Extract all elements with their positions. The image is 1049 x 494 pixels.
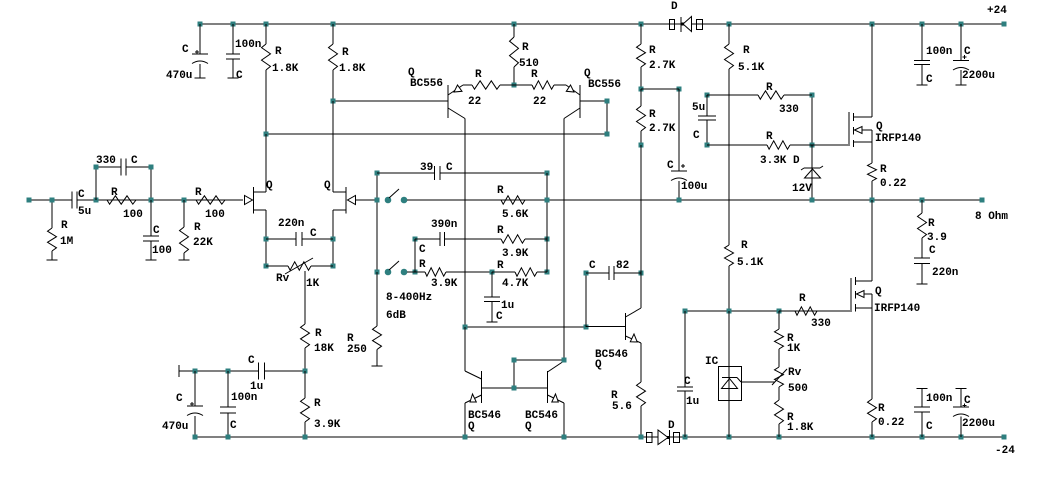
- node bottom rail junctions (685,437): [683, 435, 688, 440]
- capacitor C 5u (bias): [692, 95, 716, 145]
- potentiometer Rv 500: [772, 367, 808, 395]
- node 2.7k mid (641,89): [639, 87, 644, 92]
- svg-text:R: R: [878, 403, 885, 415]
- svg-text:R: R: [497, 260, 504, 272]
- terminal input rail stub: [178, 365, 180, 377]
- svg-text:22K: 22K: [193, 237, 213, 249]
- wire mirror bases: [482, 360, 565, 388]
- node 330 row (812,95): [810, 93, 815, 98]
- svg-text:R: R: [475, 69, 482, 81]
- svg-text:3.3K: 3.3K: [760, 155, 787, 167]
- resistor R 5.6: [611, 343, 646, 437]
- capacitor C 82: [586, 260, 641, 280]
- svg-text:0.22: 0.22: [880, 178, 906, 190]
- capacitor C 220n (zobel): [914, 245, 958, 284]
- svg-text:5u: 5u: [78, 206, 91, 218]
- svg-text:5.6: 5.6: [612, 401, 632, 413]
- node R1M top (52,200): [50, 198, 55, 203]
- node output line junctions (812,200): [810, 198, 815, 203]
- svg-text:C: C: [693, 130, 700, 142]
- resistor R 330 (upper): [707, 82, 812, 116]
- wire BC556-right base run: [266, 101, 607, 134]
- transistor Q IRFP140 (lower): [851, 200, 920, 399]
- svg-text:Rv: Rv: [276, 273, 290, 285]
- node 390n row (415,272): [413, 270, 418, 275]
- diode D (bottom rail, cathode right): [647, 420, 680, 445]
- resistor R 250: [347, 272, 383, 366]
- svg-text:R: R: [649, 109, 656, 121]
- svg-text:1K: 1K: [306, 278, 320, 290]
- node driver base line (586,327): [584, 325, 589, 330]
- resistor R 510: [510, 24, 539, 85]
- node input bypass corners (151,167): [149, 165, 154, 170]
- svg-text:22: 22: [468, 96, 481, 108]
- node fb right column (547,173): [545, 171, 550, 176]
- svg-text:C: C: [236, 70, 243, 82]
- svg-text:R: R: [342, 47, 349, 59]
- node bottom rail junctions (729,437): [727, 435, 732, 440]
- switch S1 (fb): [385, 189, 408, 203]
- svg-text:R: R: [928, 218, 935, 230]
- svg-text:C: C: [248, 355, 255, 367]
- transistor Q BC546 (mirror left): [465, 371, 501, 437]
- svg-text:3.9K: 3.9K: [431, 278, 458, 290]
- svg-text:1u: 1u: [686, 396, 699, 408]
- svg-text:-24: -24: [995, 445, 1015, 457]
- node base-net junctions (607,101): [605, 99, 610, 104]
- svg-text:100: 100: [152, 245, 172, 257]
- node fb right column (547,272): [545, 270, 550, 275]
- wire BC556-right collector drop: [563, 119, 565, 361]
- node top rail junctions (922,24): [920, 22, 925, 27]
- resistor R 3.9K (fb mid): [497, 225, 547, 260]
- svg-text:1.8K: 1.8K: [339, 63, 366, 75]
- svg-text:C: C: [131, 155, 138, 167]
- svg-text:Q: Q: [875, 286, 882, 298]
- svg-text:100n: 100n: [235, 39, 261, 51]
- svg-text:R: R: [649, 45, 656, 57]
- wire driver base line: [465, 326, 586, 328]
- svg-text:1u: 1u: [501, 300, 514, 312]
- svg-text:R: R: [522, 42, 529, 54]
- node top rail junctions (233,24): [231, 22, 236, 27]
- svg-text:470u: 470u: [162, 421, 188, 433]
- resistor R 2.7K (upper): [637, 24, 676, 89]
- capacitor C 5u (input): [72, 189, 91, 218]
- capacitor C 390n: [415, 219, 501, 272]
- svg-text:470u: 470u: [166, 70, 192, 82]
- capacitor C 39 (fb): [377, 162, 547, 180]
- capacitor C 220n (source bridge): [266, 218, 333, 246]
- capacitor C 100u: [667, 89, 707, 200]
- node output line junctions (982,200): [980, 198, 985, 203]
- svg-text:1K: 1K: [787, 343, 801, 355]
- svg-text:R: R: [880, 164, 887, 176]
- node top rail junctions (200,24): [198, 22, 203, 27]
- svg-text:R: R: [766, 131, 773, 143]
- svg-text:D: D: [793, 155, 800, 167]
- node pot row (333,266): [331, 264, 336, 269]
- node lower gate line (729,311): [727, 309, 732, 314]
- svg-text:5u: 5u: [692, 102, 705, 114]
- svg-text:100n: 100n: [231, 392, 257, 404]
- label -24: [995, 445, 1015, 457]
- svg-text:330: 330: [811, 318, 831, 330]
- resistor R 4.7K (fb): [492, 260, 547, 290]
- svg-text:R: R: [766, 82, 773, 94]
- resistor R 5.1K (upper): [725, 24, 765, 245]
- node base-net junctions (607,134): [605, 132, 610, 137]
- node bottom-left row (195,371): [193, 369, 198, 374]
- node top rail junctions (514,24): [512, 22, 517, 27]
- resistor R 5.1K (lower): [725, 69, 764, 311]
- node mirror bases (564,360): [562, 358, 567, 363]
- node bottom rail junctions (195,437): [193, 435, 198, 440]
- svg-text:5.1K: 5.1K: [738, 62, 765, 74]
- svg-text:220n: 220n: [278, 218, 304, 230]
- node fb left column (377,200): [375, 198, 380, 203]
- capacitor C 2200u (+24 decoupling): [953, 24, 995, 85]
- transistor Q jfet (right): [324, 101, 377, 266]
- svg-text:22: 22: [533, 96, 546, 108]
- label 8 Ohm: [975, 211, 1008, 223]
- resistor R 2.7K (lower): [637, 89, 676, 145]
- svg-text:Q: Q: [468, 421, 475, 433]
- node output line junctions (922,200): [920, 198, 925, 203]
- capacitor C 1u (bottom-left bridge): [248, 355, 265, 393]
- svg-text:C: C: [230, 420, 237, 432]
- potentiometer Rv 1K: [266, 258, 333, 324]
- svg-text:Q: Q: [595, 359, 602, 371]
- diode D (top rail, cathode left): [670, 1, 703, 32]
- svg-text:C: C: [667, 160, 674, 172]
- node output line junctions (872,200): [870, 198, 875, 203]
- wire 330 row riser: [811, 95, 813, 145]
- resistor R 22 (left): [463, 69, 514, 108]
- resistor R 18K: [301, 324, 335, 371]
- svg-text:1M: 1M: [60, 236, 74, 248]
- node fb left column (377,272): [375, 270, 380, 275]
- svg-text:330: 330: [96, 155, 116, 167]
- node bottom-left row (228,371): [226, 369, 231, 374]
- svg-text:Q: Q: [876, 121, 883, 133]
- node emitter row (514,85): [512, 83, 517, 88]
- capacitor C 470u (bottom-left): [162, 371, 203, 437]
- svg-text:C: C: [926, 74, 933, 86]
- wire gate upper: [812, 144, 848, 146]
- resistor R 1.8K (bias): [775, 387, 814, 437]
- svg-text:C: C: [684, 376, 691, 388]
- svg-text:R: R: [315, 328, 322, 340]
- resistor R 100 (series 1): [107, 187, 143, 221]
- svg-text:18K: 18K: [314, 343, 334, 355]
- resistor R 1K (bias): [775, 311, 801, 367]
- wire fb left column: [376, 173, 378, 326]
- svg-text:IRFP140: IRFP140: [874, 303, 920, 315]
- node top rail junctions (872,24): [870, 22, 875, 27]
- wire mirror riser: [464, 327, 466, 371]
- svg-text:R: R: [194, 222, 201, 234]
- node 220n bridge (266,239): [264, 237, 269, 242]
- svg-text:390n: 390n: [431, 219, 457, 231]
- node mirror bases (514,360): [512, 358, 517, 363]
- node 82pF row (641,273): [639, 271, 644, 276]
- svg-text:2200u: 2200u: [962, 418, 995, 430]
- svg-text:IRFP140: IRFP140: [875, 133, 921, 145]
- node bottom rail junctions (779,437): [777, 435, 782, 440]
- wire 2.7k mid to 100u: [641, 88, 679, 90]
- node output line junctions (547,200): [545, 198, 550, 203]
- svg-text:C: C: [310, 228, 317, 240]
- resistor R 5.6K (fb): [407, 185, 547, 221]
- svg-text:12V: 12V: [792, 183, 812, 195]
- resistor R 1.8K (left): [262, 24, 299, 134]
- node bottom rail junctions (961,437): [959, 435, 964, 440]
- svg-text:1.8K: 1.8K: [272, 63, 299, 75]
- svg-text:2.7K: 2.7K: [649, 60, 676, 72]
- node bottom rail junctions (1004,437): [1002, 435, 1007, 440]
- svg-text:C: C: [929, 245, 936, 257]
- resistor R 22 (right): [514, 69, 566, 108]
- node input bypass corners (96,167): [94, 165, 99, 170]
- svg-text:5.1K: 5.1K: [737, 257, 764, 269]
- node pot row (266,266): [264, 264, 269, 269]
- svg-text:2200u: 2200u: [962, 70, 995, 82]
- transistor Q BC556 (right PNP): [564, 68, 621, 119]
- svg-text:R: R: [275, 46, 282, 58]
- svg-text:C: C: [182, 44, 189, 56]
- svg-text:Rv: Rv: [788, 367, 802, 379]
- node 2.7k mid (679,89): [677, 87, 682, 92]
- svg-text:500: 500: [788, 383, 808, 395]
- capacitor C 100n (bottom-left): [220, 371, 257, 437]
- wire input line: [29, 199, 243, 201]
- capacitor C 100n top-left: [226, 24, 261, 82]
- svg-text:Q: Q: [525, 421, 532, 433]
- capacitor C 1u (gate low): [677, 311, 699, 437]
- wire fb right column: [546, 173, 548, 272]
- svg-text:R: R: [531, 69, 538, 81]
- svg-text:6dB: 6dB: [386, 310, 406, 322]
- wire lower gate line: [685, 310, 850, 312]
- node after R100 (151,200): [149, 198, 154, 203]
- capacitor C 100: [143, 200, 172, 260]
- resistor R 3.3K: [707, 131, 812, 167]
- svg-text:C: C: [153, 225, 160, 237]
- svg-text:100: 100: [123, 209, 143, 221]
- resistor R 22K: [179, 200, 214, 260]
- node fb right column (547,239): [545, 237, 550, 242]
- svg-text:8-400Hz: 8-400Hz: [386, 292, 432, 304]
- capacitor C 100n (+24 decoupling): [914, 24, 952, 86]
- svg-text:R: R: [799, 293, 806, 305]
- node 1u fb cap top (492,272): [490, 270, 495, 275]
- wire IC ref to pot wiper: [741, 381, 775, 383]
- svg-text:5.6K: 5.6K: [502, 209, 529, 221]
- node input terminal (29,200): [27, 198, 32, 203]
- svg-text:R: R: [497, 185, 504, 197]
- node top rail junctions (333,24): [331, 22, 336, 27]
- svg-text:100: 100: [205, 209, 225, 221]
- transistor Q BC546 (mirror right): [525, 361, 564, 437]
- node 3.3k row (641,145): [639, 143, 644, 148]
- svg-text:R: R: [61, 220, 68, 232]
- svg-text:82: 82: [616, 260, 629, 272]
- node input RC (96,200): [94, 198, 99, 203]
- capacitor C 470u top-left: [166, 24, 208, 82]
- IC shunt regulator: [705, 311, 742, 437]
- svg-text:39: 39: [420, 162, 433, 174]
- node bottom rail junctions (228,437): [226, 435, 231, 440]
- capacitor C 330 (input bypass): [96, 155, 151, 200]
- node bottom rail junctions (872,437): [870, 435, 875, 440]
- svg-text:3.9K: 3.9K: [314, 419, 341, 431]
- node 220n bridge (333,239): [331, 237, 336, 242]
- node bottom-left row (305,371): [303, 369, 308, 374]
- node lower gate line (685,311): [683, 309, 688, 314]
- diode D 12V zener: [792, 145, 823, 200]
- node output line junctions (679,200): [677, 198, 682, 203]
- resistor R 3.9K (bottom-left): [301, 371, 341, 437]
- svg-text:3.9: 3.9: [927, 232, 947, 244]
- node 3.3k row (812,145): [810, 143, 815, 148]
- wire bottom-left row: [179, 370, 305, 372]
- node bottom rail junctions (564,437): [562, 435, 567, 440]
- svg-text:D: D: [668, 420, 675, 432]
- node bottom rail junctions (641,437): [639, 435, 644, 440]
- svg-text:C: C: [496, 311, 503, 323]
- node top rail junctions (1004,24): [1002, 22, 1007, 27]
- svg-text:C: C: [419, 244, 426, 256]
- wire BC556-left base: [333, 100, 448, 102]
- resistor R 3.9 (zobel): [918, 200, 947, 258]
- svg-text:0.22: 0.22: [878, 417, 904, 429]
- svg-text:R: R: [741, 240, 748, 252]
- svg-text:100n: 100n: [926, 46, 952, 58]
- svg-text:BC556: BC556: [588, 79, 621, 91]
- svg-text:R: R: [419, 259, 426, 271]
- resistor R 1.8K (right): [329, 24, 366, 101]
- svg-text:250: 250: [347, 344, 367, 356]
- node base-net junctions (266,134): [264, 132, 269, 137]
- node BC556-left base (333,101): [331, 99, 336, 104]
- wire BC556-left collector drop: [464, 119, 466, 328]
- wire bias column mid: [640, 145, 642, 308]
- switch S2 (8-400Hz): [385, 261, 433, 322]
- node top rail junctions (961,24): [959, 22, 964, 27]
- svg-text:R: R: [743, 45, 750, 57]
- svg-text:3.9K: 3.9K: [502, 248, 529, 260]
- node fb left column (377,173): [375, 171, 380, 176]
- svg-text:C: C: [446, 162, 453, 174]
- svg-text:Q: Q: [266, 180, 273, 192]
- svg-text:Q: Q: [324, 180, 331, 192]
- svg-text:330: 330: [779, 104, 799, 116]
- node lower gate line (779,311): [777, 309, 782, 314]
- svg-text:C: C: [176, 393, 183, 405]
- svg-text:C: C: [78, 189, 85, 201]
- node fb right column (547,200): [545, 198, 550, 203]
- svg-text:R: R: [314, 398, 321, 410]
- svg-text:D: D: [671, 1, 678, 13]
- label +24: [987, 5, 1007, 17]
- resistor R 3.9K (fb low): [407, 259, 492, 290]
- node 82pF row (586,273): [584, 271, 589, 276]
- node bottom rail junctions (922,437): [920, 435, 925, 440]
- wire 82pF riser: [585, 273, 587, 327]
- node 3.3k row (707,145): [705, 143, 710, 148]
- transistor Q jfet (left): [245, 134, 274, 266]
- svg-text:R: R: [497, 225, 504, 237]
- svg-text:8 Ohm: 8 Ohm: [975, 211, 1008, 223]
- svg-text:4.7K: 4.7K: [502, 278, 529, 290]
- node top rail junctions (266,24): [264, 22, 269, 27]
- svg-text:+24: +24: [987, 5, 1007, 17]
- svg-text:C: C: [964, 46, 971, 58]
- node bottom rail junctions (465,437): [463, 435, 468, 440]
- resistor R 330 (lower): [779, 293, 850, 330]
- svg-text:100u: 100u: [681, 181, 707, 193]
- capacitor C 2200u (-24 decoupling): [953, 389, 995, 438]
- capacitor C 1u (fb): [484, 272, 514, 323]
- node mirror bases (514,388): [512, 386, 517, 391]
- svg-text:1u: 1u: [250, 381, 263, 393]
- node 330 row (707,95): [705, 93, 710, 98]
- node top rail junctions (729,24): [727, 22, 732, 27]
- node 390n row (415,239): [413, 237, 418, 242]
- svg-text:IC: IC: [705, 356, 719, 368]
- node driver base line (465,327): [463, 325, 468, 330]
- svg-text:220n: 220n: [932, 267, 958, 279]
- node top rail junctions (641,24): [639, 22, 644, 27]
- wire -24 bottom rail: [195, 436, 1004, 438]
- resistor R 1M: [47, 200, 74, 260]
- wire output line: [407, 199, 982, 201]
- svg-text:100n: 100n: [926, 393, 952, 405]
- svg-text:R: R: [195, 187, 202, 199]
- svg-text:1.8K: 1.8K: [787, 422, 814, 434]
- node bottom rail junctions (305,437): [303, 435, 308, 440]
- capacitor C 100n (-24 decoupling): [914, 389, 952, 438]
- transistor Q BC556 (left PNP): [408, 67, 465, 119]
- transistor Q BC546 (driver): [586, 308, 641, 371]
- node R22K top (184,200): [182, 198, 187, 203]
- svg-text:2.7K: 2.7K: [649, 123, 676, 135]
- svg-text:BC556: BC556: [410, 78, 443, 90]
- wire +24 top rail: [200, 23, 1004, 25]
- svg-text:C: C: [589, 260, 596, 272]
- resistor R 100 (series 2): [195, 187, 225, 221]
- resistor R 0.22 (lower): [868, 399, 905, 437]
- svg-text:C: C: [926, 421, 933, 433]
- svg-text:R: R: [111, 187, 118, 199]
- transistor Q IRFP140 (upper): [849, 24, 921, 163]
- resistor R 0.22 (upper): [868, 163, 907, 200]
